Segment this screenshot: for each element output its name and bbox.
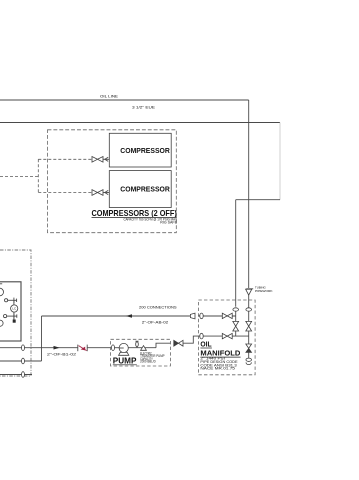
manifold inlet flange	[190, 313, 195, 319]
wire: H2 inside manifold	[198, 335, 248, 337]
compressors capacity note	[124, 217, 178, 224]
pump discharge riser vent	[128, 341, 156, 348]
svg-text:RIG SAFE: RIG SAFE	[160, 221, 177, 225]
wire: faint riser at x=280	[279, 123, 281, 200]
union on H2	[200, 333, 203, 339]
flow arrow left	[126, 314, 133, 318]
svg-text:COMPRESSORS (2 OFF): COMPRESSORS (2 OFF)	[92, 208, 177, 218]
compressors title	[92, 208, 177, 218]
union below check	[246, 358, 252, 361]
wire: manifold inlet riser A	[235, 200, 237, 307]
pump data note	[140, 351, 164, 363]
tubing pipework label	[255, 286, 273, 293]
svg-text:OIL LINE: OIL LINE	[100, 94, 118, 99]
wire: tank outlet 1 to pump	[0, 347, 111, 349]
wire: tank outlet 2	[0, 360, 42, 362]
union on outlet 1	[22, 345, 25, 351]
svg-text:LC: LC	[12, 307, 16, 311]
valve on H1	[222, 313, 232, 318]
drain funnel	[141, 346, 147, 351]
manifold data note	[200, 356, 238, 370]
compressor 1	[109, 133, 171, 167]
oil manifold enclosure (dashed)	[198, 300, 255, 375]
wire: oil line horizontal	[0, 99, 249, 101]
wire: H1 inside manifold	[198, 315, 235, 317]
compressors enclosure (dashed)	[48, 130, 177, 233]
tank skid enclosure (chain line)	[0, 250, 31, 376]
wire: feed branch to compressor 2	[38, 192, 92, 194]
svg-text:COMPRESSOR: COMPRESSOR	[120, 146, 170, 155]
drain weight symbol	[13, 320, 16, 323]
wire: gas feed dashed from left	[0, 176, 38, 178]
instrument tap upper	[5, 298, 17, 303]
union at pump inlet	[112, 345, 115, 351]
wire: pump discharge jog	[156, 343, 170, 348]
wire: header to manifold riser	[236, 199, 280, 201]
wire: connections line to manifold	[42, 315, 191, 317]
svg-text:2"-OF-B1-02: 2"-OF-B1-02	[47, 352, 76, 356]
discharge check valve	[174, 340, 183, 346]
svg-text:2000 BBL/D: 2000 BBL/D	[140, 360, 156, 364]
tubing pipework flange on riser B	[246, 289, 254, 308]
valve on H2	[222, 333, 232, 338]
wire: discharge to manifold	[183, 336, 198, 343]
valve on riser A	[233, 311, 239, 336]
svg-text:PUMP: PUMP	[113, 356, 137, 365]
check valve (red)	[78, 345, 87, 352]
union on outlet 2	[22, 358, 25, 364]
wire: gas feed dashed riser	[37, 159, 39, 192]
svg-text:COMPRESSOR: COMPRESSOR	[120, 185, 170, 194]
instrument tap lower	[4, 313, 17, 318]
svg-text:200 CONNECTIONS: 200 CONNECTIONS	[139, 305, 177, 309]
pump enclosure (dashed)	[111, 339, 171, 366]
valve at compressor 2 inlet	[92, 190, 109, 196]
flow arrow right	[54, 346, 60, 350]
union on H1	[200, 313, 203, 319]
wire: EUE line horizontal	[0, 122, 280, 124]
union on riser B	[246, 308, 252, 311]
instrument circle lower (cut off)	[0, 320, 3, 326]
valve upper on riser B	[246, 311, 252, 344]
svg-text:2"-OF-AB-02: 2"-OF-AB-02	[142, 321, 168, 325]
union on riser A	[233, 308, 239, 311]
OIL MANIFOLD title	[200, 342, 240, 358]
tank body	[0, 282, 21, 341]
svg-text:NACE MR.01.75: NACE MR.01.75	[200, 367, 235, 371]
wire: feed branch to compressor 1	[38, 158, 92, 160]
instrument circle upper (cut off)	[0, 284, 4, 296]
wire: oil line drop to manifold	[248, 100, 250, 288]
valve at compressor 1 inlet	[92, 157, 109, 163]
svg-text:PIPEWORK: PIPEWORK	[255, 289, 273, 293]
valve lower on riser B	[246, 344, 252, 358]
wire: outlet 2 riser	[41, 316, 43, 361]
wire: tank outlet 3	[0, 374, 32, 376]
union on outlet 3	[22, 372, 25, 378]
pump P1	[114, 343, 129, 355]
level controller LC	[11, 300, 18, 321]
end cap	[246, 362, 251, 364]
compressor 2	[109, 171, 171, 208]
svg-text:3 1/2" EUE: 3 1/2" EUE	[132, 105, 155, 110]
PUMP label	[113, 356, 137, 365]
